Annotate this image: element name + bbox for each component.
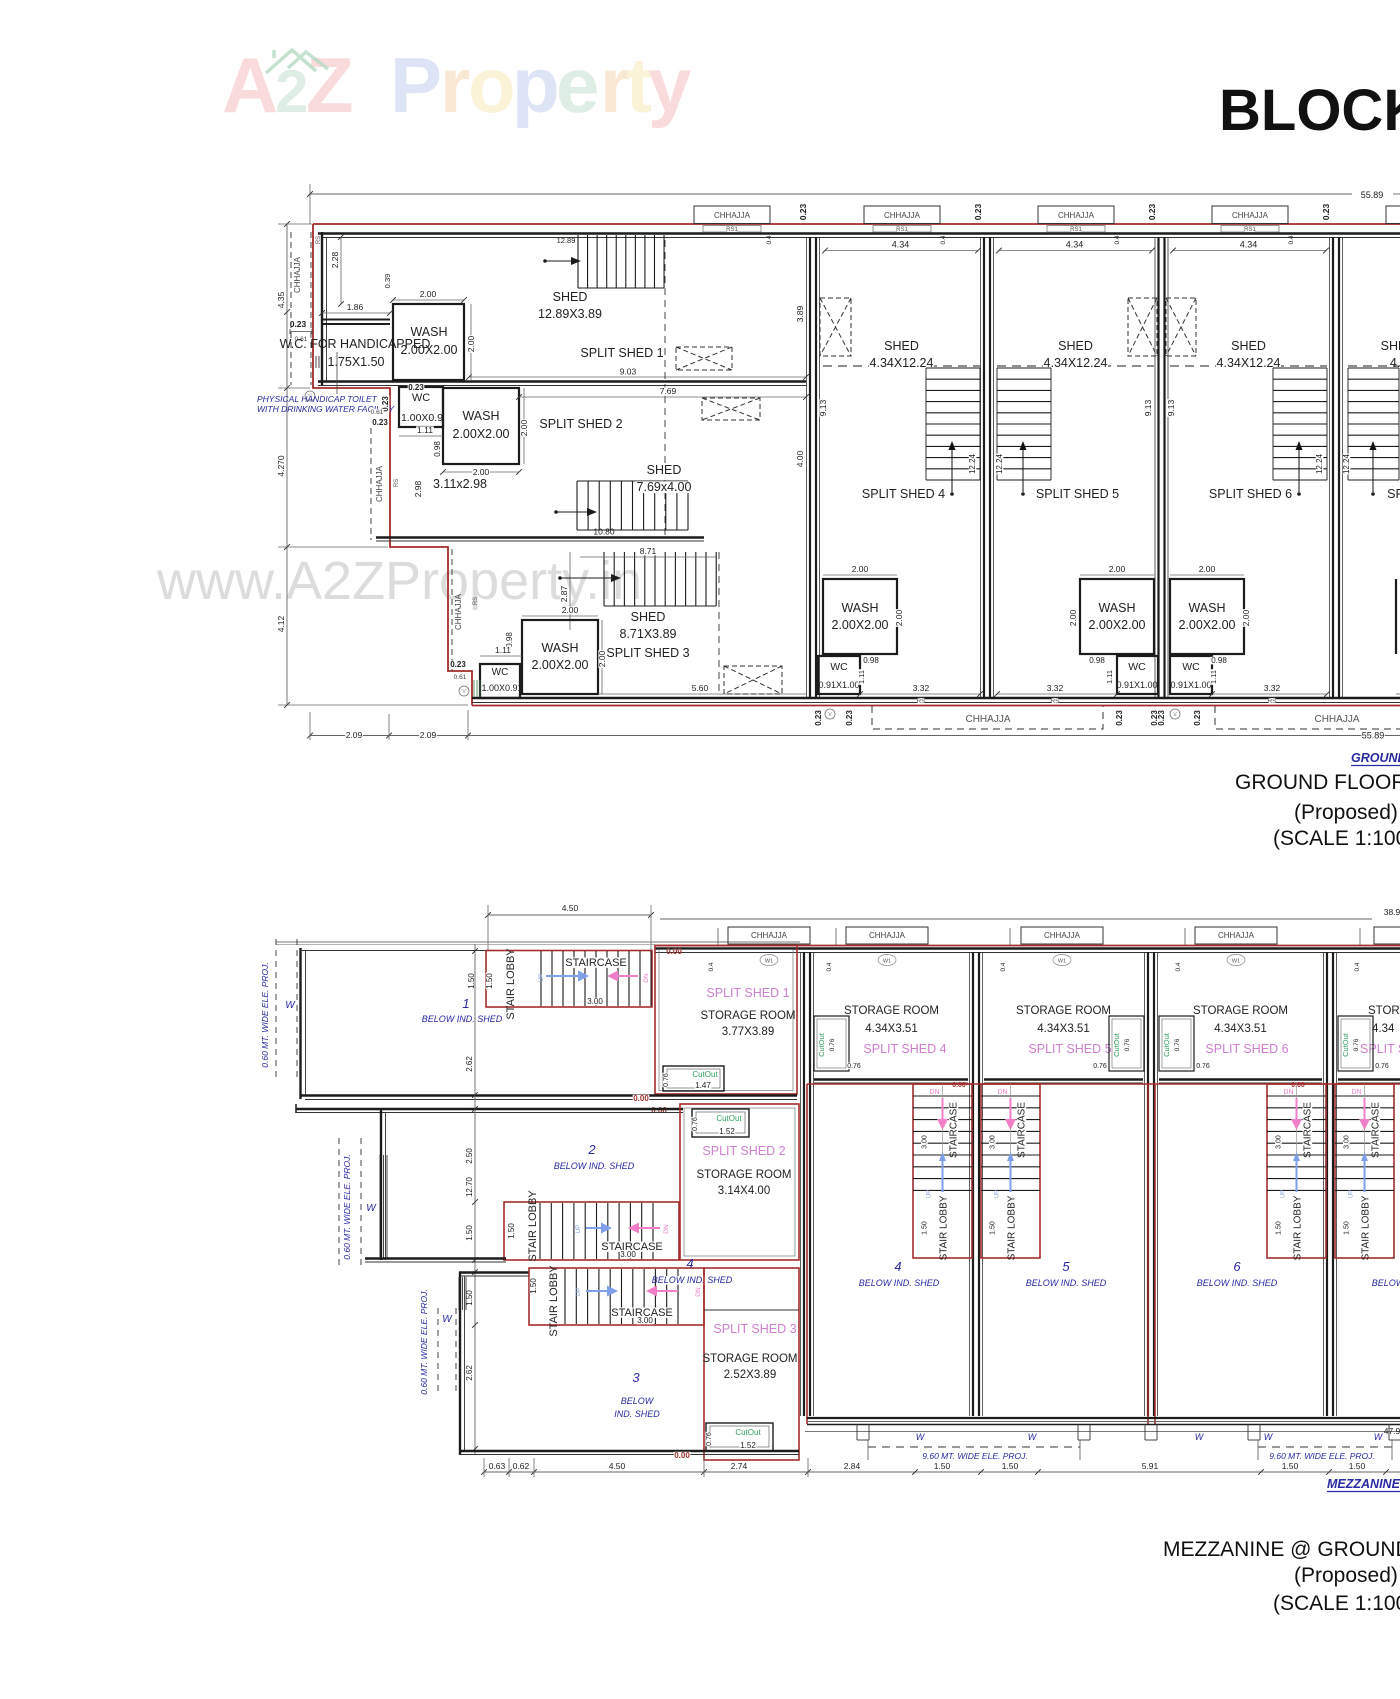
svg-text:4.34: 4.34 (1240, 240, 1258, 250)
svg-text:0.23: 0.23 (1147, 203, 1157, 220)
svg-text:0.00: 0.00 (674, 1451, 690, 1460)
svg-text:3: 3 (632, 1370, 640, 1385)
staircase shed2 (577, 481, 688, 530)
svg-text:0.23: 0.23 (1193, 710, 1202, 726)
svg-text:0.00: 0.00 (651, 1106, 667, 1115)
svg-text:1.50: 1.50 (529, 1278, 538, 1294)
svg-text:DN: DN (997, 1089, 1007, 1096)
svg-text:4.34: 4.34 (892, 240, 910, 250)
svg-text:SPLIT SHED 3: SPLIT SHED 3 (713, 1322, 796, 1336)
svg-text:CutOut: CutOut (692, 1070, 718, 1079)
svg-text:2.00: 2.00 (562, 605, 579, 615)
svg-text:BELOW IND. SHED: BELOW IND. SHED (859, 1278, 940, 1288)
region2 bottom wall (365, 1257, 506, 1259)
staircase mezz unit5 (981, 1084, 1040, 1258)
svg-text:UP: UP (1349, 1190, 1355, 1198)
bottom wall nubs (856, 1424, 858, 1440)
svg-text:SPLIT SHED 6: SPLIT SHED 6 (1209, 487, 1292, 501)
svg-text:CHHAJJA: CHHAJJA (884, 211, 921, 220)
RS labels bottom wall (918, 698, 925, 704)
svg-text:2.00: 2.00 (597, 650, 607, 667)
svg-text:0.23: 0.23 (798, 203, 808, 220)
4.34 dims per unit (825, 250, 978, 252)
svg-text:0.4: 0.4 (1354, 962, 1361, 971)
svg-text:STORAGE ROOM: STORAGE ROOM (701, 1010, 796, 1022)
wall under split shed 2 band (376, 536, 704, 538)
red top wall mezz (655, 945, 1400, 947)
staircase shed1 (578, 235, 664, 288)
svg-text:SHED: SHED (631, 610, 666, 624)
cutout unit5 (1109, 1016, 1144, 1071)
svg-text:0.4: 0.4 (1114, 235, 1121, 244)
W1 window circles (760, 955, 778, 966)
svg-text:0.61: 0.61 (454, 674, 467, 681)
top boundary line region1 (276, 941, 800, 943)
staircase mezz unit7 (1335, 1084, 1394, 1258)
svg-text:UP: UP (538, 973, 545, 982)
svg-text:0.76: 0.76 (1093, 1063, 1107, 1070)
dim 4.50 mezz top (488, 914, 651, 916)
svg-text:UP: UP (575, 1287, 582, 1296)
wc handicapped top wall (322, 319, 390, 321)
dim 55.89 top (310, 193, 1352, 195)
svg-text:SPLIT SHED 1: SPLIT SHED 1 (580, 346, 663, 360)
cutout unit7 (1338, 1016, 1373, 1071)
RS1 strips (703, 226, 761, 233)
dim 0.39 (384, 273, 391, 289)
svg-text:0.62: 0.62 (513, 1461, 530, 1471)
svg-text:STAIRCASE: STAIRCASE (1371, 1102, 1382, 1158)
svg-text:0.4: 0.4 (708, 962, 715, 971)
svg-text:RS1: RS1 (726, 227, 738, 233)
svg-text:0.91X1.00: 0.91X1.00 (1170, 680, 1211, 690)
svg-text:W1: W1 (883, 959, 891, 965)
svg-text:DN: DN (1351, 1089, 1361, 1096)
svg-text:0.4: 0.4 (1175, 962, 1182, 971)
watermark logo A2Z Property (222, 41, 691, 129)
svg-text:RS: RS (316, 236, 322, 244)
svg-text:4.34: 4.34 (1372, 1023, 1395, 1035)
left wall (321, 232, 323, 385)
svg-text:6: 6 (1233, 1259, 1241, 1274)
svg-text:BELOW: BELOW (621, 1396, 655, 1406)
svg-text:WC: WC (412, 392, 430, 404)
bottom wall mezz right units (807, 1417, 1400, 1419)
storage room 2 red box (680, 1104, 799, 1260)
bottom dim line 2.09 2.09 55.89 (310, 735, 1400, 737)
svg-text:3.00: 3.00 (637, 1316, 653, 1325)
dim 2.87 (569, 552, 571, 630)
svg-text:4.34: 4.34 (1066, 240, 1084, 250)
svg-text:12.89: 12.89 (557, 236, 576, 245)
svg-text:UP: UP (575, 1224, 582, 1233)
svg-text:V: V (1173, 712, 1177, 718)
stair3 arrow (558, 576, 562, 580)
stair1 direction arrow (543, 259, 547, 263)
window hatch band3 (473, 680, 475, 697)
svg-text:0.23: 0.23 (408, 383, 424, 392)
svg-text:7.69x4.00: 7.69x4.00 (637, 480, 692, 494)
svg-text:0.39: 0.39 (383, 274, 392, 289)
svg-text:0.23: 0.23 (973, 203, 983, 220)
svg-text:4: 4 (686, 1256, 693, 1271)
svg-text:3.32: 3.32 (913, 683, 930, 693)
svg-text:1.52: 1.52 (740, 1441, 756, 1450)
svg-text:BELOW IND. SHED: BELOW IND. SHED (1026, 1278, 1107, 1288)
svg-text:1.50: 1.50 (1282, 1461, 1299, 1471)
svg-text:10.80: 10.80 (593, 527, 615, 537)
svg-text:SPLIT SHED 5: SPLIT SHED 5 (1036, 487, 1119, 501)
svg-text:2.09: 2.09 (420, 730, 437, 740)
svg-text:0.76: 0.76 (847, 1063, 861, 1070)
svg-text:DN: DN (643, 973, 650, 983)
svg-text:DN: DN (663, 1224, 670, 1234)
ele proj dashed strip 3 (437, 1308, 439, 1396)
dim 2.00 wash3 top (522, 615, 598, 617)
svg-text:4.34X3.51: 4.34X3.51 (865, 1023, 917, 1035)
svg-text:RS: RS (1050, 698, 1060, 705)
svg-text:2.00: 2.00 (1241, 609, 1251, 626)
svg-text:2.00: 2.00 (1199, 564, 1216, 574)
svg-text:0.91X1.00: 0.91X1.00 (1116, 680, 1157, 690)
svg-text:CHHAJJA: CHHAJJA (1314, 714, 1359, 725)
svg-text:W: W (1264, 1432, 1274, 1442)
svg-text:UP: UP (927, 1190, 933, 1198)
svg-text:9.60 MT. WIDE ELE. PROJ.: 9.60 MT. WIDE ELE. PROJ. (922, 1451, 1028, 1461)
svg-text:0.4: 0.4 (766, 235, 773, 244)
cutout 1 (663, 1066, 724, 1091)
window hatch region3 left wall (458, 1277, 460, 1310)
svg-text:1.11: 1.11 (417, 425, 433, 435)
svg-text:SHED: SHED (1231, 339, 1266, 353)
svg-text:GROUND FLOOR PLAN: GROUND FLOOR PLAN (1235, 771, 1400, 794)
svg-text:2: 2 (275, 58, 308, 125)
2.00 dims wash right units (823, 574, 897, 576)
storage room 3 red box (704, 1268, 799, 1460)
svg-text:CHHAJJA: CHHAJJA (1058, 211, 1095, 220)
svg-text:1.00X0.91: 1.00X0.91 (481, 683, 522, 693)
svg-text:RS: RS (394, 479, 400, 487)
svg-text:0.76: 0.76 (706, 1432, 713, 1446)
staircase mezz unit4 (913, 1084, 972, 1258)
svg-text:0.4: 0.4 (940, 235, 947, 244)
svg-text:9.03: 9.03 (620, 367, 637, 377)
svg-text:3.11x2.98: 3.11x2.98 (433, 477, 487, 491)
dim 2.00 wash2 right (523, 388, 525, 464)
svg-text:2.62: 2.62 (465, 1056, 474, 1072)
svg-text:PHYSICAL HANDICAP TOILET: PHYSICAL HANDICAP TOILET (257, 394, 378, 404)
svg-text:3.00: 3.00 (620, 1250, 636, 1259)
svg-text:WC: WC (1128, 661, 1146, 673)
svg-text:0.00: 0.00 (1291, 1082, 1305, 1089)
dim 2.28 (340, 237, 342, 304)
svg-text:2.00: 2.00 (1068, 609, 1078, 626)
bottom thin line mezz (805, 1431, 1400, 1433)
cutout 3 (706, 1423, 773, 1451)
dim 1.11 wc2 (399, 435, 443, 437)
svg-text:W: W (442, 1314, 453, 1325)
cutout unit6 (1159, 1016, 1194, 1071)
region2 left wall (380, 1109, 382, 1260)
svg-text:2.00X2.00: 2.00X2.00 (1179, 618, 1236, 632)
svg-text:BELOW IND. SHED: BELOW IND. SHED (1197, 1278, 1278, 1288)
svg-text:2.84: 2.84 (844, 1461, 861, 1471)
svg-text:0.23: 0.23 (450, 660, 466, 669)
dim 1.86 (322, 312, 390, 314)
svg-text:RS: RS (473, 597, 479, 605)
svg-text:47.9: 47.9 (1384, 1426, 1400, 1436)
red building outline ground floor (313, 224, 1400, 706)
svg-text:0.63: 0.63 (489, 1461, 506, 1471)
svg-text:DN: DN (1283, 1089, 1293, 1096)
svg-text:0.00: 0.00 (633, 1094, 649, 1103)
svg-text:3.00: 3.00 (1344, 1135, 1351, 1149)
svg-text:CHHAJJA: CHHAJJA (293, 256, 302, 293)
svg-text:1: 1 (462, 996, 469, 1011)
staircase unit6 (1273, 368, 1327, 480)
svg-text:2.74: 2.74 (731, 1461, 748, 1471)
svg-text:0.91X1.00: 0.91X1.00 (818, 680, 859, 690)
wash room 3 (522, 620, 598, 694)
svg-text:STAIR LOBBY: STAIR LOBBY (1293, 1195, 1304, 1260)
svg-text:0.98: 0.98 (863, 656, 879, 665)
svg-text:r: r (440, 41, 470, 129)
bottom wall (472, 697, 1400, 700)
svg-text:CHHAJJA: CHHAJJA (965, 714, 1010, 725)
ventilation circle (305, 391, 315, 401)
bottom dim line mezz (484, 1471, 1400, 1473)
svg-text:0.76: 0.76 (1124, 1038, 1131, 1051)
svg-text:2.00: 2.00 (466, 335, 476, 352)
svg-text:3.00: 3.00 (1276, 1135, 1283, 1149)
region3 bottom wall (459, 1450, 799, 1452)
svg-text:9.60 MT. WIDE ELE. PROJ.: 9.60 MT. WIDE ELE. PROJ. (1269, 1451, 1375, 1461)
svg-text:5.60: 5.60 (692, 683, 709, 693)
svg-text:0.23: 0.23 (814, 710, 823, 726)
svg-text:WASH: WASH (841, 601, 878, 615)
svg-text:0.23: 0.23 (290, 319, 307, 329)
svg-text:4.50: 4.50 (562, 903, 579, 913)
svg-text:3.14X4.00: 3.14X4.00 (718, 1185, 770, 1197)
svg-text:0.00: 0.00 (666, 947, 682, 956)
svg-text:4.00: 4.00 (795, 450, 805, 467)
0.98 dims right units (863, 657, 880, 665)
svg-text:9.13: 9.13 (818, 399, 828, 416)
svg-text:0.76: 0.76 (663, 1073, 670, 1087)
svg-text:3.00: 3.00 (587, 997, 603, 1006)
red walls divider 5/6 (1147, 1084, 1149, 1424)
svg-text:STAIR LOBBY: STAIR LOBBY (548, 1265, 560, 1337)
svg-text:SPLIT SHED 2: SPLIT SHED 2 (539, 417, 622, 431)
svg-text:1.86: 1.86 (347, 302, 364, 312)
svg-text:SPLIT SHED 4: SPLIT SHED 4 (862, 487, 945, 501)
svg-text:1.50: 1.50 (465, 1225, 474, 1241)
svg-text:RS1: RS1 (1070, 227, 1082, 233)
svg-text:RS1: RS1 (1244, 227, 1256, 233)
svg-text:0.60 MT. WIDE ELE. PROJ.: 0.60 MT. WIDE ELE. PROJ. (419, 1289, 429, 1395)
left vertical dim line (286, 224, 288, 705)
cutout 2 (692, 1109, 749, 1137)
svg-text:RS1: RS1 (896, 227, 908, 233)
svg-text:W.C. FOR HANDICAPPED: W.C. FOR HANDICAPPED (280, 337, 431, 351)
dim 2.00 wash1 (393, 299, 464, 301)
wash rooms right units (823, 579, 897, 654)
mezz left vertical dim line (474, 944, 476, 1455)
svg-text:12.24: 12.24 (1315, 453, 1324, 474)
svg-text:STORAGE ROOM: STORAGE ROOM (1193, 1005, 1288, 1017)
dim 9.03 (469, 376, 806, 378)
staircase mezz 2 (504, 1202, 679, 1260)
svg-text:CutOut: CutOut (1162, 1032, 1171, 1057)
ventilation circles bottom (825, 709, 835, 719)
svg-text:BELOW IND. SHED: BELOW IND. SHED (422, 1014, 503, 1024)
svg-text:0.23: 0.23 (845, 710, 854, 726)
svg-text:W: W (916, 1432, 926, 1442)
svg-text:A: A (222, 41, 278, 129)
cutout xbox band2 (702, 398, 760, 420)
svg-text:SPLIT SHED 3: SPLIT SHED 3 (606, 646, 689, 660)
svg-text:4.34X12.24: 4.34X12.24 (1217, 356, 1281, 370)
3.32 dims (860, 693, 980, 695)
svg-text:2.00: 2.00 (473, 467, 490, 477)
svg-text:BELOW: BELOW (1372, 1278, 1400, 1288)
svg-text:WASH: WASH (462, 409, 499, 423)
svg-text:W: W (285, 1000, 296, 1011)
svg-text:12.24: 12.24 (1342, 453, 1351, 474)
svg-text:0.98: 0.98 (433, 441, 442, 457)
svg-text:V: V (828, 712, 832, 718)
svg-text:BELOW IND. SHED: BELOW IND. SHED (554, 1161, 635, 1171)
svg-text:CutOut: CutOut (1112, 1032, 1121, 1057)
svg-text:1.11: 1.11 (1209, 670, 1218, 684)
chhajja strip band2 (370, 428, 372, 540)
svg-text:8.71X3.89: 8.71X3.89 (620, 627, 677, 641)
svg-text:STORAGE ROOM: STORAGE ROOM (1016, 1005, 1111, 1017)
0.23 labels bottom (815, 710, 823, 727)
room label SHED 7.69x4.00 (651, 464, 677, 476)
region3 top wall (459, 1271, 529, 1273)
svg-text:STAIRCASE: STAIRCASE (949, 1102, 960, 1158)
dim 2.00 wash3 right (601, 620, 603, 694)
svg-text:STORAGE ROOM: STORAGE ROOM (844, 1005, 939, 1017)
svg-text:2.62: 2.62 (465, 1365, 474, 1381)
svg-text:1.50: 1.50 (1002, 1461, 1019, 1471)
svg-text:1.00X0.9: 1.00X0.9 (401, 412, 443, 424)
svg-text:SHED: SHED (884, 339, 919, 353)
svg-text:12.89X3.89: 12.89X3.89 (538, 307, 602, 321)
staircase unit4 (926, 368, 980, 480)
9.13 dims (819, 399, 827, 417)
svg-text:2.00X2.00: 2.00X2.00 (1089, 618, 1146, 632)
svg-text:SPLIT SHED 5: SPLIT SHED 5 (1028, 1042, 1111, 1056)
svg-text:2: 2 (587, 1142, 596, 1157)
svg-text:0.23: 0.23 (1115, 710, 1124, 726)
svg-text:DN: DN (929, 1089, 939, 1096)
svg-text:12.24: 12.24 (995, 453, 1004, 474)
ele proj dashed strips bottom (868, 1446, 1080, 1448)
ele proj dashed strip 1 (275, 939, 277, 1082)
svg-text:2.28: 2.28 (330, 251, 340, 268)
svg-text:55.89: 55.89 (1362, 731, 1385, 741)
svg-text:Z: Z (306, 41, 354, 129)
region3 left wall (459, 1272, 461, 1455)
svg-text:0.98: 0.98 (1089, 656, 1105, 665)
unit1 top wall (300, 950, 486, 952)
stair1 up arrow (546, 975, 580, 977)
wash room 1 (393, 304, 464, 380)
svg-text:2.00X2.00: 2.00X2.00 (832, 618, 889, 632)
svg-text:4.34X12.24: 4.34X12.24 (870, 356, 934, 370)
svg-text:CHHAJJA: CHHAJJA (1218, 931, 1255, 940)
svg-text:WC: WC (830, 661, 848, 673)
svg-text:SPLIT SHED 4: SPLIT SHED 4 (863, 1042, 946, 1056)
svg-text:1.47: 1.47 (695, 1081, 711, 1090)
cutout xbox band1 (676, 347, 732, 370)
svg-text:4.35: 4.35 (276, 291, 286, 308)
svg-text:STORAGE: STORAGE (1368, 1005, 1400, 1017)
region2 top wall (296, 1108, 683, 1110)
svg-text:(SCALE 1:100): (SCALE 1:100) (1273, 1592, 1400, 1615)
svg-text:4.34X3.51: 4.34X3.51 (1037, 1023, 1089, 1035)
svg-text:2.00: 2.00 (420, 289, 437, 299)
svg-text:CutOut: CutOut (716, 1114, 742, 1123)
svg-text:GROUND FLOOR PL: GROUND FLOOR PL (1351, 751, 1400, 765)
svg-text:BELOW IND. SHED: BELOW IND. SHED (652, 1275, 733, 1285)
storage room 1 red box (655, 946, 797, 1095)
dim 5.60 (598, 693, 806, 695)
svg-text:3.89: 3.89 (795, 305, 805, 322)
svg-text:V: V (462, 689, 466, 695)
svg-text:1.50: 1.50 (1349, 1461, 1366, 1471)
svg-text:0.76: 0.76 (692, 1117, 699, 1131)
svg-text:0.76: 0.76 (829, 1038, 836, 1051)
svg-text:STAIR LOBBY: STAIR LOBBY (527, 1190, 539, 1262)
svg-text:2.00: 2.00 (852, 564, 869, 574)
svg-text:CutOut: CutOut (735, 1428, 761, 1437)
svg-text:W: W (1374, 1432, 1384, 1442)
svg-text:8.71: 8.71 (640, 546, 657, 556)
svg-text:0.76: 0.76 (1174, 1038, 1181, 1051)
svg-text:CutOut: CutOut (1341, 1032, 1350, 1057)
red level line storage band (807, 1083, 1400, 1085)
svg-text:12.24: 12.24 (968, 453, 977, 474)
svg-text:0.60 MT. WIDE ELE. PROJ.: 0.60 MT. WIDE ELE. PROJ. (260, 962, 270, 1068)
shed dashed boundary right units (823, 365, 980, 367)
svg-text:4.34X3.51: 4.34X3.51 (1214, 1023, 1266, 1035)
svg-text:CHHAJJA: CHHAJJA (714, 211, 751, 220)
svg-text:1.11: 1.11 (495, 645, 511, 655)
svg-text:P: P (390, 41, 442, 129)
window hatch region2 left wall (379, 1155, 381, 1258)
svg-text:STAIRCASE: STAIRCASE (1017, 1102, 1028, 1158)
leader line (336, 352, 338, 394)
staircase mezz 1 (486, 951, 652, 1008)
svg-text:4.34X12.24: 4.34X12.24 (1044, 356, 1108, 370)
svg-text:1.11: 1.11 (857, 670, 866, 684)
svg-text:SPLIT SH: SPLIT SH (1360, 1042, 1400, 1056)
svg-text:W: W (1195, 1432, 1205, 1442)
chhajja dashed strips bottom (872, 706, 1103, 729)
svg-text:CHHAJJA: CHHAJJA (1044, 931, 1081, 940)
svg-text:0.4: 0.4 (1000, 962, 1007, 971)
svg-text:9.13: 9.13 (1143, 399, 1153, 416)
svg-text:STAIRCASE: STAIRCASE (565, 957, 627, 969)
svg-text:MEZZANINE @ GROUND FLOOR: MEZZANINE @ GROUND FLOOR (1163, 1538, 1400, 1561)
dim 2.98 (414, 480, 422, 498)
dims 3.89 and 4.00 unit A right (796, 305, 804, 323)
svg-text:2.98: 2.98 (413, 480, 423, 497)
chhajja boxes mezz (728, 927, 810, 944)
